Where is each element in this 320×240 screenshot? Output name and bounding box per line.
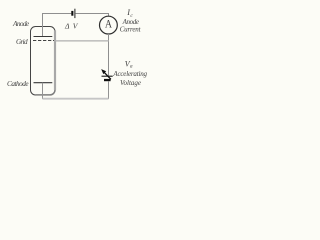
grid (dashed electrode) <box>33 40 54 42</box>
wire battery to ammeter <box>75 14 108 17</box>
ammeter A1 letter <box>105 17 113 31</box>
wire anode lead up and across top <box>43 14 72 37</box>
svg-text:Accelerating: Accelerating <box>112 70 147 78</box>
anode plate <box>34 36 53 38</box>
wire grid lead to junction <box>55 40 110 42</box>
svg-text:Current: Current <box>120 26 142 34</box>
variable source Va long plate <box>102 75 113 77</box>
variable source Va adjustment arrow shaft <box>104 72 111 79</box>
battery ΔV negative plate (short thick) <box>71 11 73 16</box>
battery ΔV positive plate (long thin) <box>74 9 76 18</box>
wire Va source down <box>108 81 110 99</box>
vacuum tube envelope (left/top dark) <box>31 27 56 96</box>
variable source Va short thick plate <box>104 79 111 81</box>
svg-text:Voltage: Voltage <box>120 79 141 87</box>
wire ammeter down to grid junction and Va source <box>108 34 110 76</box>
wire cathode lead down <box>42 83 44 99</box>
vacuum tube envelope right wall (blurred) <box>54 31 56 91</box>
svg-text:Cathode: Cathode <box>7 80 29 88</box>
svg-text:a: a <box>130 64 133 70</box>
svg-text:A: A <box>105 17 113 31</box>
variable source Va adjustment arrowhead <box>101 69 106 74</box>
svg-text:Anode: Anode <box>12 19 30 28</box>
vacuum tube envelope bottom edge <box>36 90 56 95</box>
wire bottom return (faint) <box>43 98 109 100</box>
svg-text:Anode: Anode <box>122 18 139 26</box>
svg-text:Grid: Grid <box>16 38 28 46</box>
ammeter A1 circle <box>100 16 118 34</box>
cathode plate <box>34 82 53 84</box>
